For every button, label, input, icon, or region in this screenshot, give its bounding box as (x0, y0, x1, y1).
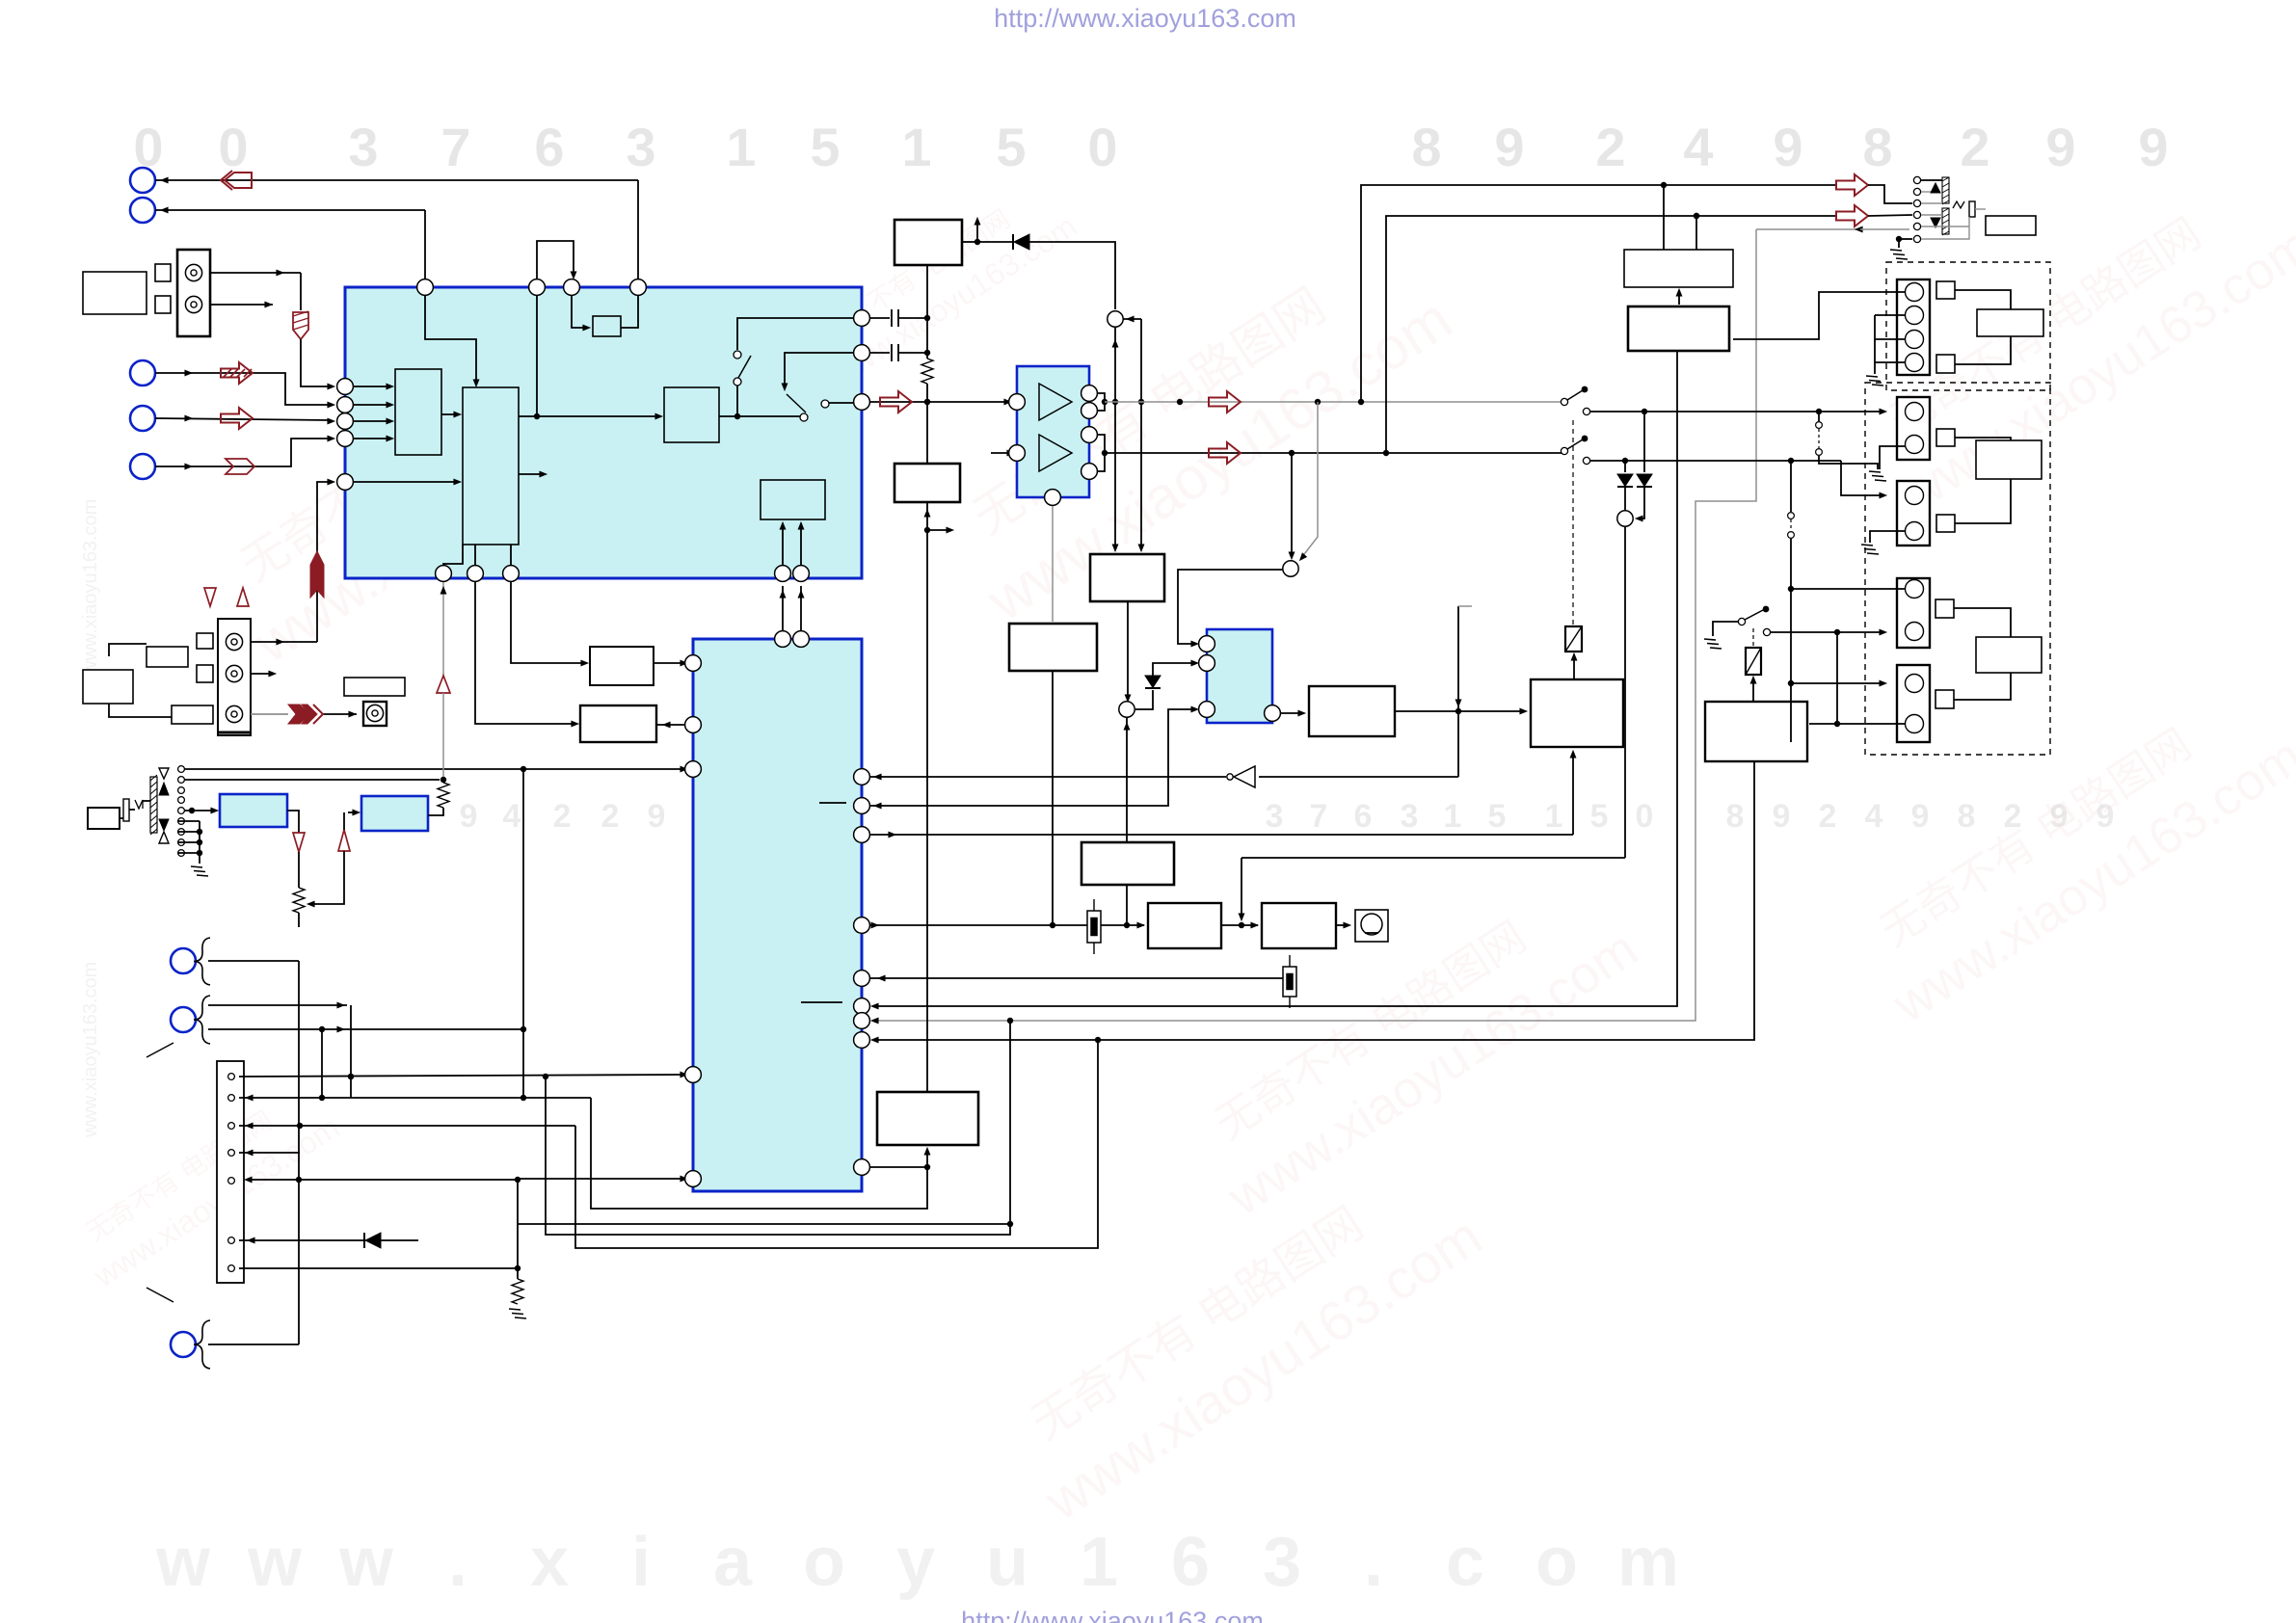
box W3 (1976, 440, 2042, 479)
ground G3 (1869, 471, 1886, 481)
wire P5 to U1 pin4 (155, 436, 335, 470)
wire RT3 to R3 arrow (307, 851, 344, 907)
box Z power (877, 1092, 978, 1145)
switch SW5 pole2 (1763, 628, 1770, 635)
svg-text:1: 1 (901, 117, 931, 177)
red triangle RT3 (338, 812, 350, 851)
terminal P4 blue ring (130, 406, 155, 431)
wire ABUS2 jog to CB3 (1841, 461, 1887, 498)
wire CN2 bracket a (109, 644, 147, 656)
wire loop pins 557-595 (537, 241, 576, 279)
wire U1 pins to sub-block A (353, 384, 394, 442)
wire P6 to CN4 pin5 (244, 1177, 521, 1184)
wire bus C to switch (719, 415, 800, 417)
box W2 relay driver (1977, 309, 2043, 336)
terminal P3 blue ring (130, 360, 155, 386)
wire PBUS riser to J3 (1624, 527, 1626, 858)
wire KEY2 route to boxZ (591, 1098, 927, 1209)
wire net AOUT U1pin3 to buffer (869, 399, 1012, 406)
motor M1 (1355, 910, 1388, 942)
svg-text:.: . (1364, 1524, 1383, 1601)
dashed box D2 (1865, 383, 2050, 755)
relay RL1 (1565, 626, 1582, 652)
U1 sub-block A input matrix (395, 369, 441, 455)
svg-text:w: w (155, 1524, 211, 1601)
CB2 square S3 (1936, 429, 1955, 446)
svg-text:1: 1 (1444, 798, 1462, 835)
connector CN1 video jacks (177, 250, 210, 336)
svg-text:7: 7 (441, 117, 470, 177)
box W5 jack aux (1986, 216, 2036, 235)
wire CN3 ground bus (177, 821, 202, 864)
wire jack sense arrow (1756, 226, 1909, 233)
wire buffer2 outputs join (1089, 435, 1108, 471)
wire y192 drop to A2 (1663, 185, 1665, 250)
wire P7 line2 (208, 1026, 523, 1033)
CB3 square S4 (1936, 515, 1955, 532)
red triangle RT1 (437, 676, 450, 693)
U1 sub-block C filter (664, 387, 719, 442)
open arrow HPR (1836, 205, 1868, 226)
crystal X1 (1087, 899, 1101, 954)
box B1 buffer stage (580, 705, 656, 742)
CN3 solid triangle up (159, 783, 169, 795)
jack hatch bar upper (1942, 177, 1949, 204)
junction ring J3 (1617, 511, 1633, 526)
U1 sub-block D logic (761, 480, 825, 519)
terminal P6 blue ring with brace (171, 938, 210, 985)
red triangle RT4 (204, 588, 216, 606)
red triangle RT2 (293, 833, 305, 852)
wire sub-block D feeds (780, 521, 805, 570)
box X system control (1531, 679, 1623, 747)
open arrow AOUT2 (1209, 391, 1241, 412)
open arrow HPL (1836, 174, 1868, 196)
wire U1pin460 chain (441, 581, 447, 676)
U1 bottom pins (436, 566, 810, 582)
CN3 solid triangle down (159, 819, 169, 831)
svg-text:2: 2 (1960, 117, 1989, 177)
IC U6 small block left2 (361, 796, 428, 831)
resistor R1 (921, 359, 933, 384)
svg-text:1: 1 (726, 117, 756, 177)
wire CB5 c2 link (1809, 721, 1906, 727)
svg-text:0: 0 (1636, 798, 1654, 835)
wire SW5 branch to box Y (1836, 632, 1838, 724)
wire J1 down to K1 (1112, 327, 1119, 552)
wire U1pin530 to box B2 (511, 581, 589, 666)
wire jack gray links (1921, 192, 1986, 239)
svg-text:w: w (247, 1524, 303, 1601)
wire T1 out right (962, 239, 980, 245)
wire KEY3 route (575, 1040, 1098, 1248)
IC U5 small block left (220, 794, 287, 827)
watermark: faint digits row top (133, 117, 2168, 177)
wire S2 to W2 (1955, 336, 2011, 364)
box T1 regulator (894, 220, 962, 265)
U1 right pins (854, 310, 870, 411)
svg-text:http://www.xiaoyu163.com: http://www.xiaoyu163.com (994, 4, 1296, 33)
svg-text:2: 2 (1595, 117, 1625, 177)
ground CN3 (191, 866, 208, 876)
wire U4 pin2 feed diode D5 (1135, 690, 1153, 709)
ground G7 (509, 1309, 526, 1318)
svg-text:0: 0 (218, 117, 248, 177)
connector CB1 (1897, 279, 1930, 375)
wire CB3 c2 gnd (1870, 531, 1906, 543)
svg-text:9: 9 (1911, 798, 1930, 835)
ground G5 (1704, 639, 1722, 649)
svg-text:3: 3 (626, 117, 655, 177)
connector link dashed pair B (1788, 513, 1887, 742)
IC U2 tall controller block (693, 639, 862, 1191)
box M driver (1262, 903, 1336, 948)
wire boxL to boxM (1221, 922, 1259, 929)
svg-text:9: 9 (1773, 117, 1802, 177)
box L servo (1148, 903, 1221, 948)
wire CN2 jack3 to RCA (251, 711, 357, 718)
wire P7 line1 (208, 1002, 347, 1009)
wire P8 link (208, 1344, 299, 1345)
box CN2 small upper (147, 647, 188, 667)
capacitor C2 (892, 344, 927, 361)
svg-text:8: 8 (1411, 117, 1441, 177)
wire HPL jog (1868, 185, 1912, 203)
wire P6 chain (208, 961, 302, 1344)
wire CN4 pin6 diode (239, 1237, 418, 1244)
CN4 bracket marks (147, 1043, 174, 1302)
box above RCA (344, 678, 405, 696)
capacitor C1 (892, 309, 927, 327)
terminal P2 blue ring (130, 198, 155, 223)
svg-text:www.xiaoyu163.com: www.xiaoyu163.com (80, 499, 101, 676)
wire CN2 bracket b (109, 704, 172, 717)
wire D1 to J1 (1029, 242, 1115, 309)
U2 left pins (685, 655, 702, 1187)
wire CB2 c2 gnd (1880, 446, 1906, 469)
CN2 square contact b (197, 665, 213, 682)
svg-text:y: y (896, 1524, 935, 1601)
wire T1 vertical rail (924, 265, 930, 359)
resistor R3 pot (293, 888, 305, 927)
svg-text:6: 6 (1354, 798, 1373, 835)
svg-text:8: 8 (1726, 798, 1745, 835)
wire jack ground (1896, 236, 1912, 248)
terminal P5 blue ring (130, 454, 155, 479)
wire RT1 to R2 (441, 693, 446, 783)
box A2 thin top right (1624, 250, 1733, 287)
wire U1 pinR1 to cap C1 (869, 317, 890, 319)
wire net KEY2 y1139 (239, 1095, 591, 1102)
U1 left pins (337, 379, 354, 491)
svg-text:5: 5 (810, 117, 840, 177)
ground G2 (1866, 376, 1883, 386)
wire D5 to U4 pin2 (1153, 660, 1199, 676)
svg-text:8: 8 (1862, 117, 1892, 177)
wire net AOUT2 y427 (1590, 409, 1887, 415)
wire R2 to U6 (428, 808, 443, 815)
wire box B1 to U2 pin752 (656, 722, 685, 729)
diode D3 (1617, 474, 1633, 487)
svg-text:c: c (1446, 1524, 1484, 1601)
wire CB1 c1 to B3 (1733, 292, 1906, 339)
terminal P8 blue ring with brace (171, 1320, 210, 1369)
svg-text:3: 3 (1266, 798, 1284, 835)
wire riser AOUT to headphone L (1358, 182, 1836, 405)
IC U4 small block (1207, 629, 1272, 723)
box K3 (1081, 842, 1174, 885)
wire net ABUS2 y478 (1590, 458, 1841, 464)
wire RT2 to R3 (298, 852, 300, 888)
wire S1 to W2 (1955, 290, 2011, 309)
open arrow ABUS (1209, 442, 1241, 464)
U1 top pins (417, 279, 647, 296)
svg-text:1: 1 (1545, 798, 1563, 835)
svg-text:4: 4 (503, 798, 521, 835)
wire K2K3 riser arrow (1126, 885, 1128, 925)
wire inverter output (1259, 776, 1458, 778)
CB4 square S5 (1936, 599, 1954, 618)
wire CN1 jack2 stub (210, 302, 273, 308)
diode D1 (977, 234, 1029, 250)
junction ring J4 (1119, 702, 1135, 717)
wire dashed RL2 linkage (1752, 628, 1754, 646)
junction ring J2 (1283, 561, 1298, 576)
watermark: left edge vertical text (80, 499, 101, 1138)
svg-text:3: 3 (348, 117, 378, 177)
svg-text:a: a (713, 1524, 753, 1601)
wire U2pin1015 crystal (869, 975, 1283, 982)
box CN2 small lower (172, 705, 213, 724)
svg-text:9: 9 (460, 798, 478, 835)
switch SW3 (1561, 386, 1589, 415)
solid chevron arrow on jack3 wire (288, 705, 323, 724)
CN3 bar component (123, 799, 129, 821)
box CN2 left (83, 670, 133, 704)
connector CN4 keypad (217, 1061, 244, 1283)
wire net AOUT long (1105, 399, 1562, 405)
svg-text:o: o (1535, 1524, 1578, 1601)
wire buffer block bottom pin (1052, 505, 1054, 622)
svg-text:4: 4 (1683, 117, 1713, 177)
wire net y1316 to U2 pin1223 (518, 1176, 688, 1268)
resistor R2 (438, 783, 449, 808)
wire U2pin836 to U4 pin3 (870, 706, 1199, 810)
CN1 square contact a (155, 264, 171, 281)
inverter G1 (1227, 766, 1255, 787)
wire S6 to W4 (1954, 673, 2011, 700)
wire net SUB2 y809 (184, 779, 440, 781)
svg-text:9: 9 (1773, 798, 1791, 835)
watermark: faint digits row middle (460, 798, 2115, 835)
wire net VOUT2 to P2 (155, 207, 425, 279)
svg-text:7: 7 (1310, 798, 1328, 835)
svg-text:9: 9 (2045, 117, 2075, 177)
wire CN3 bar links (120, 801, 150, 818)
jack solid triangle down (1931, 218, 1940, 227)
CN4 pins (228, 1074, 235, 1272)
box B2 buffer stage2 (590, 647, 654, 685)
wire gray jack net (870, 229, 1756, 1024)
box K1 (1090, 554, 1164, 601)
wire R1 to net AOUT (924, 384, 930, 405)
jack bar element (1969, 201, 1975, 217)
svg-text:6: 6 (1171, 1524, 1210, 1601)
wire net KEY3 y1168 (239, 1123, 575, 1130)
CN3 squiggle (135, 800, 143, 809)
wire P3 to U1 pin1 (155, 370, 335, 409)
watermark: big bottom url (155, 1524, 1679, 1601)
CB5 square S6 (1936, 690, 1954, 708)
wire U1 pin5 to sub-block B (353, 479, 462, 486)
svg-text:i: i (631, 1524, 651, 1601)
junction ring J1 (1108, 311, 1123, 327)
wire CN1 jack1 to riser (210, 270, 301, 310)
svg-text:m: m (1617, 1524, 1679, 1601)
U2 top pins (775, 631, 810, 648)
svg-text:6: 6 (534, 117, 564, 177)
CB1 square S2 (1936, 355, 1955, 373)
box CN3 left (88, 808, 120, 829)
wire B3 up arrow to A2 (1676, 288, 1683, 305)
hatched down arrow on CN1 riser (293, 311, 308, 339)
wire SW2 to U1 pin R3 (829, 402, 854, 404)
box W mute (1309, 686, 1395, 736)
wire net VOUT1 to P1 (155, 177, 638, 279)
svg-text:w: w (338, 1524, 394, 1601)
wire U1 bottom pin risers (443, 545, 511, 566)
svg-text:x: x (530, 1524, 569, 1601)
svg-text:1: 1 (1080, 1524, 1118, 1601)
svg-text:5: 5 (1590, 798, 1609, 835)
svg-text:0: 0 (1087, 117, 1117, 177)
wire y224 drop to A2 (1694, 213, 1699, 250)
wire D4 to J3 (1635, 487, 1644, 521)
wire drop diode D3 (1624, 461, 1626, 472)
wire riser ABUS to headphone R (1383, 213, 1836, 456)
svg-text:2: 2 (1819, 798, 1837, 835)
box B3 thick top right (1628, 306, 1729, 351)
wire pin557 internal riser (536, 296, 538, 416)
connector CN2 audio jacks (218, 619, 251, 735)
wire divider E to pin663 (621, 296, 638, 328)
wire PBUS left drop (1239, 858, 1245, 921)
left arrow marker VOUT1 (221, 171, 252, 190)
wire vert inverter riser (1455, 606, 1472, 777)
wire CN4 pin7 net (239, 1265, 521, 1279)
wire box B2 to U2 pin688 (654, 660, 688, 667)
box RCA jack square (363, 702, 387, 726)
wire gray dot riser (543, 1018, 1013, 1235)
svg-text:4: 4 (1865, 798, 1883, 835)
wire riser x543 (521, 769, 526, 1098)
wire boxZ top rail (924, 402, 954, 1092)
diode D2 (364, 1233, 381, 1248)
wire U2pin836 tag (819, 802, 846, 804)
wire drop diode D4 (1643, 412, 1645, 472)
wire pair B top stub (1790, 461, 1792, 512)
diode D4 (1637, 474, 1652, 487)
wire U1 pin R1 internal to switch SW1 (737, 318, 854, 350)
connector CB3 (1897, 481, 1930, 545)
jack solid triangle up (1921, 180, 1942, 193)
wire dashed RL1 linkage (1572, 419, 1574, 625)
CN3 hatched bar (150, 775, 157, 835)
wire net KEY1 y1117 (239, 1072, 688, 1080)
wire U5 out chain (287, 811, 299, 833)
box T2 (894, 464, 960, 502)
wire box X to relay RL1 (1571, 652, 1578, 679)
connector CB2 (1897, 397, 1930, 460)
IC U3 dual buffer block (1017, 366, 1089, 497)
svg-text:9: 9 (648, 798, 666, 835)
wire CN3 pin5 to U5 (184, 808, 219, 814)
wire inverter to U2 pin (869, 774, 1226, 781)
U3 pins (1009, 386, 1098, 506)
IC U1 main signal processor block (345, 287, 862, 578)
wire J4 down to K3 (1124, 717, 1131, 842)
svg-text:o: o (803, 1524, 845, 1601)
red triangle RT5 (237, 588, 249, 606)
svg-text:http://www.xiaoyu163.com: http://www.xiaoyu163.com (961, 1607, 1264, 1623)
svg-text:5: 5 (996, 117, 1026, 177)
svg-text:9: 9 (1494, 117, 1524, 177)
wire U4 out to box W (1281, 710, 1306, 717)
switch SW5 (1738, 606, 1769, 625)
svg-text:2: 2 (601, 798, 620, 835)
wire net PBUS y890 (1241, 857, 1625, 859)
wire AOUT drop to J2 (1299, 402, 1318, 561)
terminal P7 blue ring with brace (171, 996, 210, 1044)
resistor R4 (512, 1279, 523, 1304)
wire box W to box X (1395, 708, 1528, 715)
wire P4 to U1 pin3 (155, 415, 335, 425)
wire U1 pinR2 to cap C2 (869, 352, 890, 354)
headphone jack pins (1913, 176, 1920, 242)
wire S3 to W3 (1955, 438, 2011, 440)
U1 sub-block B decoder (463, 387, 519, 545)
wire J2 to U4 pin1 (1178, 570, 1283, 647)
box Y power switch (1705, 702, 1807, 761)
wire U1 bottom pins to U2 top pins (780, 586, 805, 631)
wire D3 to J3 (1624, 487, 1626, 511)
wire CB1 gnd bus (1875, 315, 1906, 374)
CB1 square S1 (1936, 281, 1955, 299)
wire T1 up arrow (974, 217, 981, 242)
switch SW2 lever (787, 394, 806, 412)
wire net AOUT tail (1562, 401, 1563, 403)
U1 sub-block E divider (593, 316, 621, 336)
terminal P1 blue ring (130, 168, 155, 193)
wire boxZ bottom feed (870, 1147, 930, 1170)
svg-text:.: . (448, 1524, 467, 1601)
jack hatch bar lower (1942, 208, 1949, 235)
wire boxM to motor (1336, 922, 1351, 929)
wire CN1 riser to U1 pin1 (301, 339, 335, 389)
wire CN2 jack2 stub (251, 671, 277, 678)
buffer A1 triangle (1039, 384, 1072, 420)
wire CN2 jack1 to riser x329 (251, 487, 317, 645)
ground G4 (1861, 545, 1879, 554)
jack squiggle (1953, 201, 1964, 208)
relay RL2 (1746, 648, 1761, 675)
switch SW1 (734, 351, 751, 416)
wire U6 in stub (348, 810, 360, 816)
wire SW5 to CB4 (1771, 629, 1887, 636)
ground G1 (1890, 250, 1908, 259)
CN3 open triangle down (159, 768, 169, 779)
hatched arrow P3 (221, 362, 253, 384)
